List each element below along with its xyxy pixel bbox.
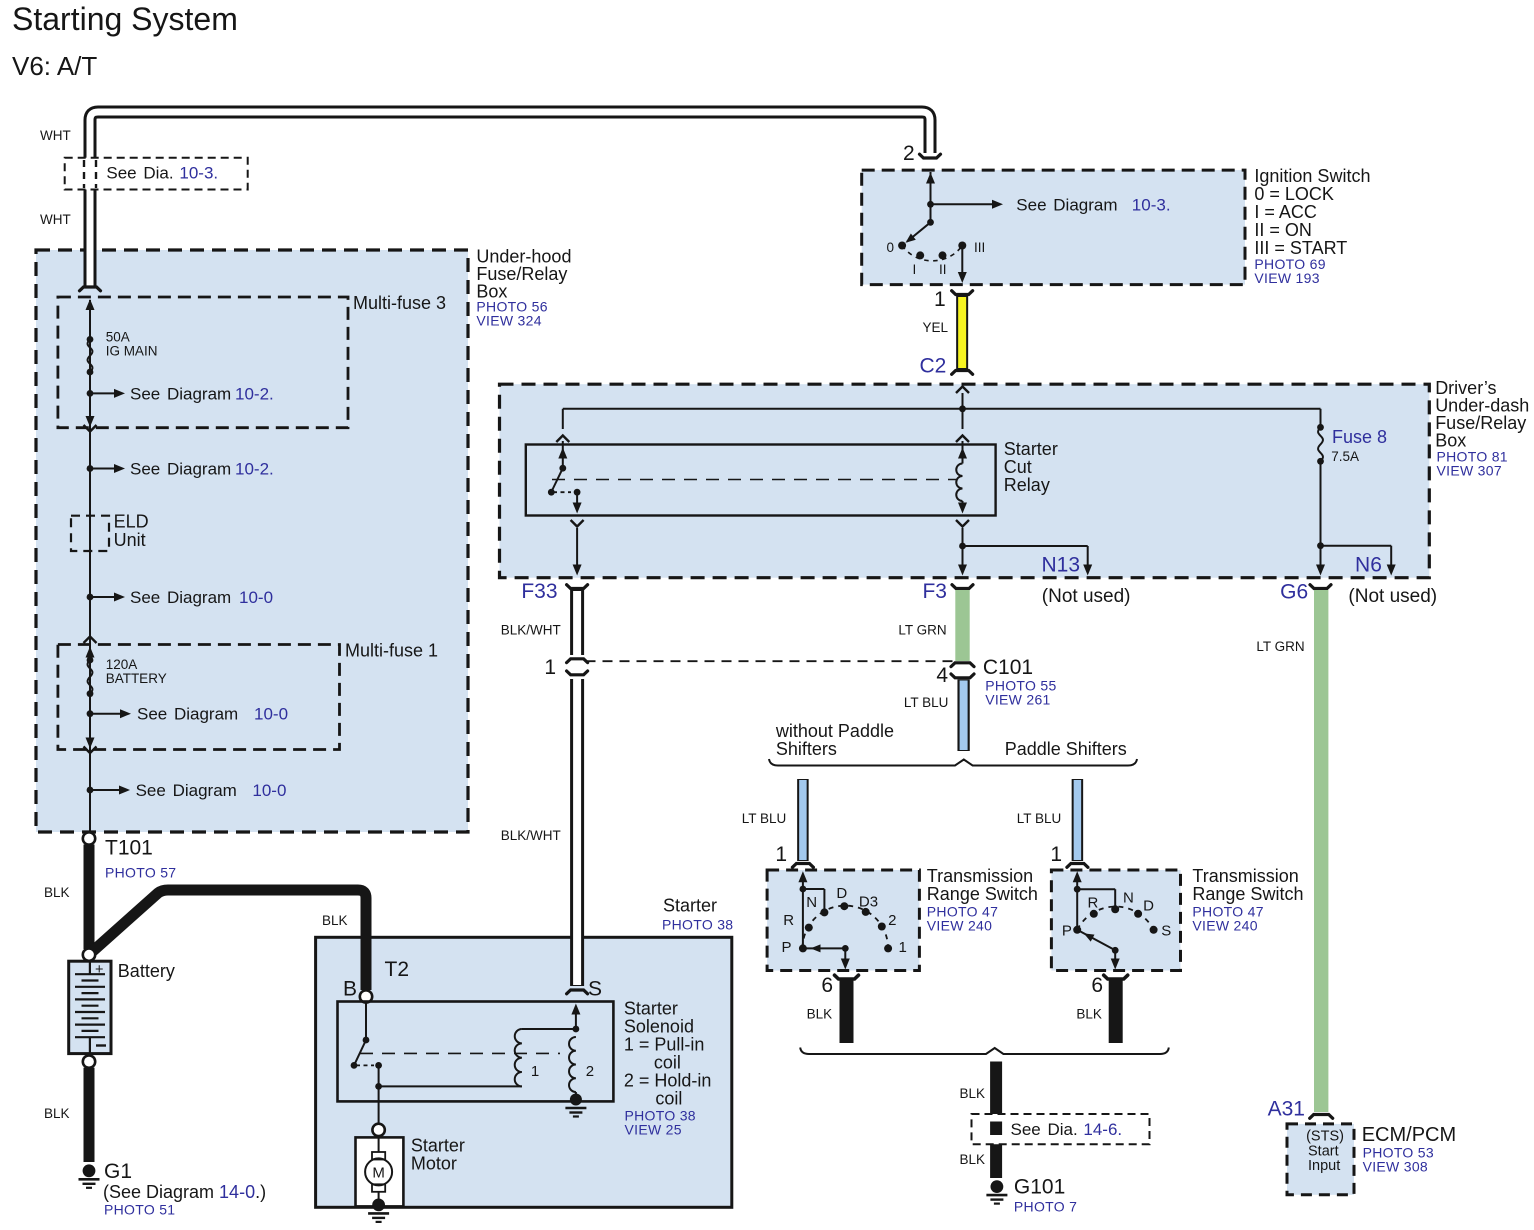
branch see diagram 10-3 [931, 203, 995, 205]
wire BLK right TRS [1109, 980, 1123, 1043]
right TRS output [1114, 950, 1116, 961]
wire BLK/WHT lower [570, 679, 584, 986]
svg-text:T2: T2 [385, 958, 410, 981]
svg-text:Unit: Unit [114, 530, 146, 550]
svg-text:VIEW 261: VIEW 261 [985, 692, 1050, 708]
fuse 50A IG MAIN [87, 336, 94, 343]
ignition switch box [862, 170, 1245, 285]
solenoid linkage dashed [360, 1052, 560, 1054]
svg-text:ECM/PCM: ECM/PCM [1362, 1124, 1456, 1146]
ignition wire to pivot [930, 204, 932, 222]
wire LT GRN G6 to A31 [1314, 590, 1328, 1112]
svg-text:PHOTO 38: PHOTO 38 [662, 917, 733, 933]
right transmission range switch box [1051, 870, 1180, 971]
ECM/PCM box [1287, 1124, 1354, 1195]
ignition switch blade to 0 [907, 222, 931, 241]
svg-text:Starter: Starter [663, 896, 717, 916]
connector T101 [83, 832, 95, 844]
battery box [69, 961, 111, 1053]
arrow down at multi-fuse 3 bottom [86, 416, 95, 427]
svg-text:See Diagram10-0: See Diagram10-0 [137, 705, 288, 724]
svg-text:S: S [588, 978, 602, 1001]
ground solenoid coil [570, 1094, 582, 1106]
solenoid switch contact [375, 1062, 382, 1069]
svg-text:Cut: Cut [1004, 457, 1032, 477]
svg-text:ELD: ELD [114, 512, 149, 532]
svg-text:Battery: Battery [118, 961, 175, 981]
right TRS corner junction [1074, 886, 1081, 893]
connector cap right TRS [1067, 864, 1088, 868]
connector cap A31 [1310, 1115, 1333, 1119]
connector cap at under-hood box (WHT wire bottom end) [80, 287, 101, 291]
left TRS contact N [820, 908, 828, 916]
ground G1 [83, 1164, 96, 1177]
svg-text:BLK/WHT: BLK/WHT [501, 623, 561, 638]
arrow down at multi-fuse 1 bottom [86, 738, 95, 749]
svg-text:See Diagram10-0: See Diagram10-0 [130, 588, 273, 607]
connector cap left TRS [792, 864, 813, 868]
svg-text:1: 1 [531, 1063, 539, 1080]
starter solenoid box [338, 1002, 614, 1102]
svg-text:Motor: Motor [411, 1154, 457, 1174]
svg-text:BLK: BLK [44, 1106, 70, 1121]
right TRS contact N [1111, 905, 1119, 913]
see-dia-14-6 box [972, 1114, 1150, 1144]
svg-text:1: 1 [899, 939, 907, 956]
wire BLK left TRS [840, 980, 854, 1043]
wire BLK to G101 lower [990, 1144, 1002, 1178]
wire coil2 to ground [575, 1092, 577, 1096]
wire solenoid to starter motor [378, 1086, 380, 1123]
multi-fuse 3 box [58, 297, 348, 428]
left TRS contact R [805, 924, 813, 932]
left TRS input arrow [798, 871, 807, 882]
ignition contact III [958, 242, 966, 250]
ignition contact 0 [898, 242, 906, 250]
wire BLK T101 to battery [84, 845, 95, 950]
connector cap C2 top [952, 291, 973, 295]
svg-text:2 = Hold-in: 2 = Hold-in [624, 1071, 712, 1091]
bus horizontal wire [563, 408, 1321, 410]
svg-text:P: P [1062, 923, 1072, 940]
svg-text:1: 1 [934, 288, 946, 311]
svg-text:6: 6 [1091, 974, 1103, 997]
left TRS contact P [799, 944, 807, 952]
svg-text:Input: Input [1308, 1158, 1340, 1174]
svg-text:BLK: BLK [959, 1086, 985, 1101]
svg-text:2: 2 [586, 1063, 594, 1080]
svg-text:Starter: Starter [624, 999, 678, 1019]
svg-text:Solenoid: Solenoid [624, 1017, 694, 1037]
chevron above multi-fuse 1 [84, 637, 97, 644]
svg-text:B: B [343, 978, 357, 1001]
starter motor box [356, 1137, 404, 1206]
solenoid switch pivot [363, 1037, 370, 1044]
svg-text:Transmission: Transmission [927, 866, 1033, 886]
svg-text:2: 2 [888, 912, 896, 929]
ELD unit box [71, 516, 109, 551]
ignition input wire [930, 172, 932, 204]
relay switch dashed link [553, 491, 571, 493]
svg-text:VIEW 324: VIEW 324 [476, 313, 541, 329]
svg-text:BLK: BLK [807, 1007, 833, 1022]
right TRS contacts arc [1077, 907, 1153, 930]
pull-in coil 1 [515, 1029, 522, 1086]
harness dashed line to C101 [586, 660, 957, 662]
relay coil output [962, 501, 964, 505]
svg-text:Starter: Starter [411, 1136, 465, 1156]
svg-text:Shifters: Shifters [776, 739, 837, 759]
multi-fuse 1 box [58, 645, 340, 750]
svg-text:F3: F3 [922, 580, 947, 603]
wire BLK to G101 upper [990, 1062, 1002, 1117]
relay switch pivot [559, 465, 566, 472]
svg-text:Paddle Shifters: Paddle Shifters [1005, 739, 1127, 759]
svg-text:Starter: Starter [1004, 439, 1058, 459]
connector battery negative [83, 1055, 95, 1067]
svg-text:LT BLU: LT BLU [742, 811, 787, 826]
svg-text:WHT: WHT [40, 212, 71, 227]
svg-text:PHOTO 57: PHOTO 57 [105, 865, 176, 881]
svg-text:BLK: BLK [44, 885, 70, 900]
branch junction see-diagram 10-2 (1) [87, 390, 94, 397]
right TRS contact D [1134, 910, 1142, 918]
branch N13 [963, 545, 1088, 547]
wire LT BLU C101 [957, 680, 969, 752]
svg-text:I = ACC: I = ACC [1254, 202, 1317, 222]
svg-text:See Diagram10-2.: See Diagram10-2. [130, 460, 274, 479]
arrow up into multi-fuse 1 [86, 647, 95, 658]
right TRS input arrow [1073, 871, 1082, 882]
solenoid output wire [378, 1065, 380, 1086]
svg-text:(STS): (STS) [1306, 1129, 1344, 1145]
connector cap right 6 [1104, 975, 1128, 979]
wire BLK battery to starter B [93, 890, 366, 990]
svg-text:WHT: WHT [40, 128, 71, 143]
svg-text:without Paddle: without Paddle [775, 721, 894, 741]
svg-text:0 = LOCK: 0 = LOCK [1254, 184, 1334, 204]
wire S arrow [575, 1010, 577, 1029]
right TRS wire to P [1076, 889, 1078, 930]
svg-text:Multi-fuse 3: Multi-fuse 3 [353, 293, 446, 313]
connector cap C101 bottom [951, 674, 974, 678]
svg-text:R: R [783, 912, 794, 929]
svg-text:(Not used): (Not used) [1042, 586, 1131, 607]
junction battery positive [83, 949, 95, 961]
relay switch output [576, 492, 578, 505]
wire BLK/WHT F33 upper [570, 590, 584, 655]
svg-text:See Diagram10-3.: See Diagram10-3. [1016, 195, 1170, 214]
svg-text:0: 0 [886, 240, 894, 255]
svg-text:coil: coil [654, 1053, 681, 1073]
svg-text:III: III [974, 240, 985, 255]
svg-text:G6: G6 [1280, 581, 1308, 604]
svg-text:G101: G101 [1014, 1176, 1065, 1199]
connector cap G6 [1310, 585, 1331, 589]
svg-text:N6: N6 [1355, 554, 1382, 577]
svg-text:50A: 50A [106, 330, 130, 345]
right TRS wire to N [1077, 888, 1115, 890]
left transmission range switch box [767, 870, 919, 971]
svg-text:Transmission: Transmission [1192, 866, 1298, 886]
fuse 120A BATTERY [87, 657, 94, 664]
svg-text:Starting System: Starting System [12, 1, 238, 37]
svg-text:LT BLU: LT BLU [1017, 811, 1062, 826]
wire WHT underhood-to-ignition (white wire, black outline) [90, 112, 930, 288]
svg-text:See Dia.14-6.: See Dia.14-6. [1011, 1120, 1123, 1139]
branch junction see-diagram 10-0 (1) [87, 594, 94, 601]
svg-text:II: II [939, 262, 947, 277]
svg-text:LT GRN: LT GRN [898, 623, 946, 638]
wire LT BLU left branch [797, 779, 809, 861]
left TRS contacts arc [803, 906, 889, 949]
svg-text:Multi-fuse 1: Multi-fuse 1 [345, 641, 438, 661]
svg-text:Box: Box [1435, 431, 1466, 451]
right TRS contact R [1090, 910, 1098, 918]
connector starter motor [372, 1124, 384, 1136]
wire coil junction to F3 [962, 546, 964, 567]
svg-text:A31: A31 [1268, 1098, 1305, 1121]
wire LT GRN F3 to C101 [955, 590, 969, 661]
svg-text:6: 6 [821, 974, 833, 997]
svg-text:D: D [836, 885, 847, 902]
harness merge brace [800, 1048, 1169, 1055]
wire C2 into box [956, 387, 969, 394]
starter box [316, 937, 732, 1207]
svg-text:N: N [1123, 890, 1134, 907]
relay switch blade [551, 468, 563, 492]
svg-text:See Diagram10-2.: See Diagram10-2. [130, 384, 274, 403]
left TRS wiper [803, 947, 845, 949]
ignition contact II [939, 251, 947, 259]
wire YEL [956, 296, 968, 369]
wire under-hood main vertical [89, 300, 91, 832]
svg-text:BLK: BLK [322, 913, 348, 928]
ground starter motor [372, 1199, 385, 1212]
relay switch contact [574, 489, 581, 496]
fuse 8 [1320, 409, 1322, 428]
right TRS contact S [1150, 926, 1158, 934]
svg-text:M: M [372, 1165, 385, 1182]
svg-text:P: P [782, 939, 792, 956]
connector cap break top [567, 659, 588, 663]
left TRS wire to N [803, 888, 825, 890]
svg-text:PHOTO 7: PHOTO 7 [1014, 1199, 1077, 1215]
connector cap at ignition switch pin 2 [920, 154, 941, 158]
wire coil1 top to coil2 top [522, 1028, 576, 1030]
svg-text:I: I [913, 262, 917, 277]
under-hood fuse/relay box [36, 250, 468, 832]
svg-text:C101: C101 [983, 656, 1033, 679]
relay coil [956, 464, 962, 502]
branch junction see-diagram 10-0 (2) [87, 710, 94, 717]
svg-text:T101: T101 [105, 837, 153, 860]
svg-text:1 = Pull-in: 1 = Pull-in [624, 1035, 705, 1055]
svg-text:Relay: Relay [1004, 475, 1050, 495]
svg-text:N: N [806, 894, 817, 911]
left TRS output [844, 948, 846, 961]
ignition contact I [916, 251, 924, 259]
svg-text:BLK: BLK [1076, 1007, 1102, 1022]
branch junction see-diagram 10-2 (2) [87, 465, 94, 472]
svg-text:VIEW 193: VIEW 193 [1254, 270, 1319, 286]
svg-text:BATTERY: BATTERY [106, 671, 167, 686]
svg-text:See Dia.10-3.: See Dia.10-3. [106, 164, 218, 183]
starter cut relay box [526, 445, 996, 516]
svg-text:D3: D3 [859, 894, 878, 911]
right TRS contact P [1073, 926, 1081, 934]
svg-text:See Diagram10-0: See Diagram10-0 [136, 781, 287, 800]
svg-text:VIEW 240: VIEW 240 [927, 918, 992, 934]
ground G101 [991, 1180, 1004, 1193]
harness split brace [769, 759, 1137, 766]
svg-text:Range Switch: Range Switch [1192, 884, 1303, 904]
driver's under-dash fuse/relay box [500, 384, 1430, 578]
wire bus down to relay coil [962, 409, 964, 429]
branch junction see-diagram 10-0 (3) [87, 787, 94, 794]
connector cap C101 top [951, 663, 974, 667]
left TRS contact D [840, 902, 848, 910]
svg-text:PHOTO 51: PHOTO 51 [104, 1202, 175, 1218]
svg-text:4: 4 [936, 664, 948, 687]
svg-text:N13: N13 [1041, 554, 1080, 577]
svg-text:BLK/WHT: BLK/WHT [501, 828, 561, 843]
solenoid switch dashed link [356, 1064, 374, 1066]
svg-text:II = ON: II = ON [1254, 220, 1312, 240]
svg-text:D: D [1143, 898, 1154, 915]
svg-text:VIEW 308: VIEW 308 [1363, 1159, 1428, 1175]
connector cap F33 [567, 585, 588, 589]
wire bus down-left to relay [562, 409, 564, 429]
svg-text:(See Diagram 14-0.): (See Diagram 14-0.) [103, 1182, 266, 1202]
hold-in coil 2 [569, 1037, 576, 1092]
left TRS wire to P [802, 889, 804, 948]
left TRS contact 1 [884, 944, 892, 952]
svg-text:120A: 120A [106, 657, 138, 672]
starter motor symbol [378, 1136, 380, 1152]
junction relay coil / N13 [959, 543, 966, 550]
left TRS contact 2 [878, 923, 886, 931]
solenoid switch wire from B [365, 1003, 367, 1040]
wire LT BLU right branch [1072, 779, 1084, 861]
branch N6 [1321, 545, 1392, 547]
ignition contacts arc [902, 246, 962, 261]
solenoid switch blade [354, 1040, 366, 1065]
connector S [567, 990, 588, 994]
svg-text:III = START: III = START [1254, 238, 1347, 258]
relay linkage dashed [552, 479, 957, 481]
connector cap left 6 [835, 975, 859, 979]
junction fuse8 / N6 [1317, 542, 1324, 549]
wire III to pin 1 [961, 246, 963, 276]
svg-text:IG MAIN: IG MAIN [106, 344, 158, 359]
left TRS corner junction [800, 886, 807, 893]
svg-text:Fuse 8: Fuse 8 [1332, 427, 1387, 447]
left TRS contact D3 [862, 908, 870, 916]
svg-text:1: 1 [1050, 843, 1062, 866]
see-dia-10-3 box [65, 158, 248, 190]
bus junction at C2 [959, 405, 966, 412]
svg-text:F33: F33 [521, 580, 557, 603]
svg-text:C2: C2 [919, 355, 946, 378]
svg-text:YEL: YEL [922, 320, 948, 335]
svg-text:R: R [1088, 895, 1099, 912]
svg-text:VIEW 25: VIEW 25 [625, 1122, 682, 1138]
svg-text:Range Switch: Range Switch [927, 884, 1038, 904]
connector cap break bottom [567, 671, 588, 675]
svg-text:VIEW 240: VIEW 240 [1192, 918, 1257, 934]
svg-text:coil: coil [655, 1089, 682, 1109]
svg-text:S: S [1161, 923, 1171, 940]
svg-text:(Not used): (Not used) [1348, 586, 1437, 607]
connector cap C2 bottom [952, 371, 973, 375]
wire BLK battery to G1 [84, 1068, 95, 1162]
right TRS wiper [1077, 930, 1115, 951]
wire fuse8 to G6 [1320, 546, 1322, 567]
svg-text:7.5A: 7.5A [1331, 449, 1359, 464]
svg-text:2: 2 [903, 142, 915, 165]
svg-text:Ignition Switch: Ignition Switch [1254, 166, 1370, 186]
svg-text:+: + [95, 962, 103, 978]
battery plates [75, 973, 105, 975]
arrow up into multi-fuse 3 [86, 299, 95, 310]
svg-text:BLK: BLK [959, 1152, 985, 1167]
svg-text:V6: A/T: V6: A/T [12, 51, 97, 81]
svg-text:LT BLU: LT BLU [904, 695, 949, 710]
svg-text:1: 1 [775, 843, 787, 866]
connector B [360, 990, 372, 1002]
svg-text:LT GRN: LT GRN [1256, 639, 1304, 654]
connector cap F3 [952, 585, 973, 589]
svg-text:G1: G1 [104, 1160, 132, 1183]
svg-text:VIEW 307: VIEW 307 [1437, 463, 1502, 479]
svg-text:1: 1 [544, 656, 556, 679]
